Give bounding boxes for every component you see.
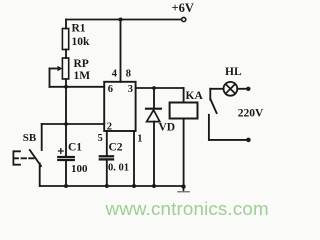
svg-text:R1: R1 bbox=[72, 22, 86, 34]
ground symbol stub bbox=[183, 186, 185, 190]
svg-text:4: 4 bbox=[112, 68, 118, 79]
node rail end dot bbox=[181, 184, 185, 188]
svg-text:0. 01: 0. 01 bbox=[108, 162, 129, 173]
node rail dot C1 bbox=[64, 184, 68, 188]
node junction dot on top rail bbox=[119, 18, 123, 22]
svg-text:C2: C2 bbox=[109, 141, 123, 153]
wire KA contact lower bbox=[208, 115, 210, 140]
wire top supply rail bbox=[66, 19, 181, 21]
capacitor C1 plus sign bbox=[59, 149, 64, 154]
lamp HL circle bbox=[224, 82, 238, 96]
terminal dot right top bbox=[246, 87, 250, 91]
capacitor C1 plates bbox=[58, 156, 74, 158]
wire VD top bbox=[153, 88, 155, 108]
wire ground rail bbox=[40, 185, 184, 187]
RP wiper arrow bbox=[50, 68, 59, 70]
relay contact blade bbox=[211, 99, 217, 113]
wire pin 4/8 bbox=[120, 20, 122, 82]
wire pin 2 bbox=[42, 123, 104, 125]
switch SB actuator bracket bbox=[13, 151, 20, 164]
wire KA contact upper bbox=[209, 89, 211, 100]
wire pin3 down to relay bbox=[183, 88, 185, 103]
wire node down to pin2 level bbox=[65, 87, 67, 124]
svg-text:6: 6 bbox=[108, 84, 113, 95]
wire R1 top stub bbox=[65, 20, 67, 29]
lamp HL cross bbox=[226, 84, 236, 94]
node junction dot at pin2 wire bbox=[64, 122, 68, 126]
svg-text:10k: 10k bbox=[72, 36, 91, 48]
node rail dot C2 bbox=[105, 184, 109, 188]
node RP bottom junction dot bbox=[64, 85, 68, 89]
svg-text:3: 3 bbox=[128, 84, 133, 95]
op-amp U1 555 timer box bbox=[104, 82, 135, 131]
svg-text:220V: 220V bbox=[238, 107, 264, 119]
wire C1 top bbox=[65, 124, 67, 156]
svg-text:RP: RP bbox=[74, 58, 89, 70]
svg-text:2: 2 bbox=[107, 122, 112, 133]
wire pin 3 bbox=[136, 87, 184, 89]
wire C2 bottom bbox=[106, 160, 108, 186]
wire bottom 220V lead bbox=[209, 139, 246, 141]
svg-text:HL: HL bbox=[225, 66, 242, 78]
svg-text:5: 5 bbox=[98, 133, 103, 144]
potentiometer RP bbox=[62, 58, 68, 79]
svg-text:www.cntronics.com: www.cntronics.com bbox=[105, 198, 269, 219]
wire lamp right bbox=[237, 88, 246, 90]
wire SB upper terminal bbox=[41, 124, 43, 150]
wire C1 bottom bbox=[65, 161, 67, 186]
svg-text:+6V: +6V bbox=[172, 1, 194, 15]
resistor R1 bbox=[62, 29, 68, 50]
+6V terminal circle bbox=[182, 17, 186, 21]
relay coil KA bbox=[170, 103, 198, 119]
wire RP bottom bbox=[65, 79, 67, 87]
wire SB lower terminal bbox=[39, 164, 41, 187]
svg-text:VD: VD bbox=[159, 122, 176, 134]
wire VD bottom bbox=[153, 122, 155, 186]
switch SB actuator dashed link bbox=[13, 157, 33, 159]
wire pin 1 bbox=[133, 131, 135, 186]
wire wiper down bbox=[49, 69, 51, 87]
svg-text:C1: C1 bbox=[68, 141, 82, 153]
svg-text:1: 1 bbox=[137, 134, 142, 145]
svg-text:1M: 1M bbox=[74, 70, 91, 82]
switch SB blade bbox=[30, 150, 41, 166]
wire pin 6 bbox=[50, 86, 105, 88]
capacitor C2 plates bbox=[100, 155, 113, 157]
diode VD triangle bbox=[147, 110, 160, 122]
svg-text:100: 100 bbox=[71, 163, 88, 175]
svg-text:SB: SB bbox=[23, 132, 37, 144]
diode VD cathode bar bbox=[146, 108, 161, 110]
svg-text:8: 8 bbox=[126, 68, 131, 79]
node rail dot VD bbox=[152, 184, 156, 188]
terminal dot right bottom bbox=[246, 138, 251, 143]
node pin3 junction dot bbox=[152, 86, 156, 90]
wire pin 5 bbox=[106, 131, 108, 155]
wire relay bottom bbox=[183, 119, 185, 187]
node rail dot pin1 bbox=[132, 184, 136, 188]
wire lamp left bbox=[210, 88, 223, 90]
svg-text:KA: KA bbox=[186, 90, 204, 102]
wire R1 to RP bbox=[65, 50, 67, 59]
